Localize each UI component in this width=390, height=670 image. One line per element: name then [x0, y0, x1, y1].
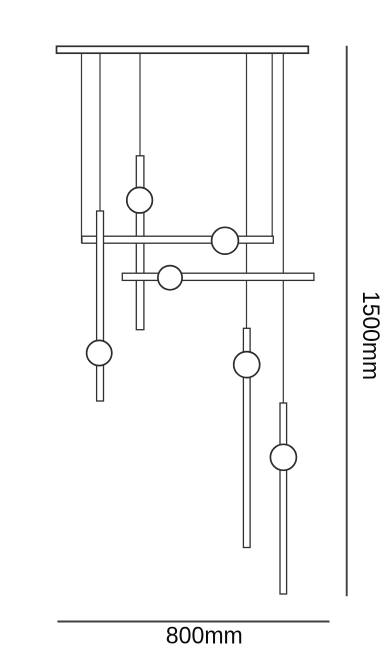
sphere on lower-middle tube	[234, 352, 260, 378]
sphere on horizontal bar 2	[158, 266, 182, 290]
sphere on left tube	[87, 340, 112, 365]
wire: suspension cord to middle tube	[139, 53, 141, 157]
tube: lower-middle vertical LED tube	[243, 328, 250, 547]
svg-text:1500mm: 1500mm	[357, 291, 384, 380]
wire: suspension cord left (rect left side)	[81, 53, 83, 243]
tube: right vertical LED tube	[280, 403, 287, 594]
dimension line: horizontal (width 800mm)	[57, 621, 329, 623]
sphere on middle tube	[127, 187, 153, 213]
sphere on right tube	[270, 444, 296, 470]
wire: suspension cord right (rect right side)	[271, 53, 273, 243]
dimension line: vertical (height 1500mm)	[346, 46, 348, 596]
bar: horizontal tube 2	[122, 273, 314, 280]
wire: suspension cord to right tube	[282, 53, 284, 404]
bar: horizontal tube 1	[82, 236, 273, 243]
wire: suspension cord to left tube	[99, 53, 101, 212]
tube: middle vertical LED tube	[136, 156, 144, 330]
wire: suspension cord to lower-middle tube	[246, 53, 248, 329]
svg-text:800mm: 800mm	[166, 622, 243, 649]
tube: left vertical LED tube	[97, 211, 104, 401]
ceiling plate	[57, 46, 309, 53]
sphere on horizontal bar 1	[212, 227, 239, 254]
